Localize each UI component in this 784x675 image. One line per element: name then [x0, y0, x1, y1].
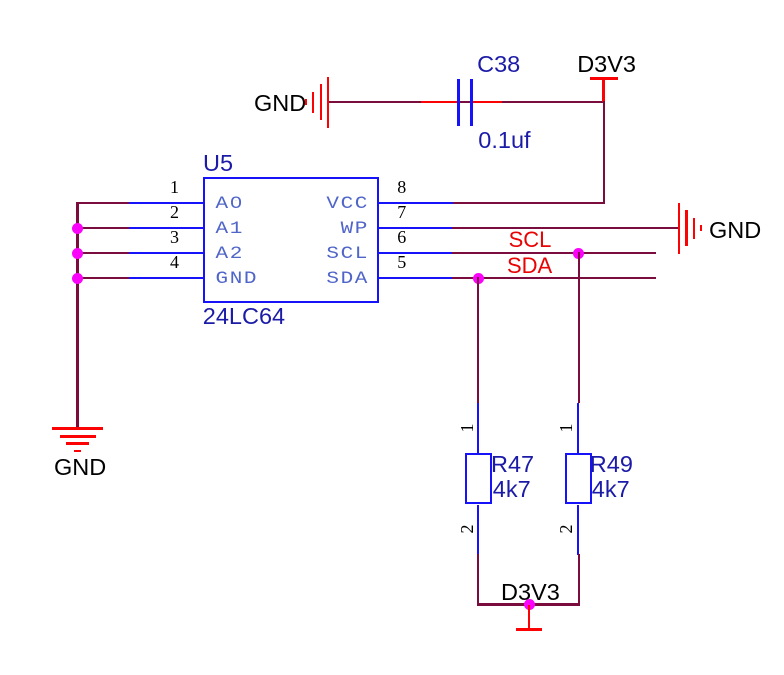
label GND top-left: [254, 91, 306, 117]
pin name A0: [216, 196, 244, 213]
wire net SDA horizontal: [452, 277, 656, 279]
ground symbol top-left (sideways): [0, 0, 784, 1]
net label SCL: [509, 228, 552, 252]
pin 4 GND: [129, 277, 203, 280]
label D3V3 bottom: [501, 580, 560, 606]
resistor R49 pin1 number 1: [557, 422, 571, 434]
pin number 7: [397, 203, 406, 221]
pin number 1: [150, 178, 179, 196]
capacitor C38 wire (GND to D3V3): [328, 101, 604, 103]
wire WP to GND: [452, 227, 678, 229]
pin number 5: [397, 253, 406, 271]
refdes R47: [491, 452, 534, 478]
pin number 8: [397, 178, 406, 196]
resistor R47 pin 2: [477, 505, 480, 555]
IC U5 body: [203, 177, 379, 303]
pin name A1: [216, 221, 244, 238]
resistor R47 pin1 number 1: [458, 422, 472, 434]
net label SDA: [507, 254, 552, 278]
label GND right: [709, 218, 761, 244]
pin name VCC: [284, 196, 369, 213]
wire net A0/A1/A2/GND vertical bus: [76, 202, 78, 429]
refdes R49: [590, 452, 633, 478]
resistor R47 body: [465, 453, 492, 505]
pin 5 SDA: [379, 277, 453, 280]
pin name A2: [216, 246, 244, 263]
value 0.1uf: [478, 128, 530, 154]
pin name SCL: [284, 246, 369, 263]
wire R49 bottom vertical: [578, 554, 580, 606]
resistor R47 pin2 number 2: [458, 523, 472, 535]
capacitor C38 left pin stub: [421, 101, 458, 104]
pin 8 VCC: [379, 202, 453, 205]
pin 7 WP: [379, 227, 453, 230]
pin 1 A0: [129, 202, 203, 205]
power symbol D3V3 bottom: [0, 0, 784, 1]
wire SCL to R49: [578, 252, 580, 403]
wire pin2 horizontal: [76, 227, 129, 229]
label C38: [477, 52, 520, 78]
power symbol D3V3 top: [0, 0, 784, 1]
capacitor C38 plates: [0, 0, 784, 1]
wire SDA to R47: [477, 277, 479, 403]
resistor R47 pin 1: [477, 403, 480, 454]
value 24LC64: [203, 304, 285, 330]
resistor R49 pin 2: [577, 505, 580, 555]
pin number 3: [150, 228, 179, 246]
capacitor C38 right pin stub: [473, 101, 502, 104]
pin name WP: [284, 221, 369, 238]
pin name GND: [216, 271, 259, 288]
wire pin3 horizontal: [76, 252, 129, 254]
pin name SDA: [284, 271, 369, 288]
pin 2 A1: [129, 227, 203, 230]
ground symbol bottom-left: [0, 0, 784, 1]
pin number 4: [150, 253, 179, 271]
ground symbol right (sideways): [0, 0, 784, 1]
wire VCC horizontal: [452, 202, 605, 204]
wire bottom rail horizontal: [477, 603, 580, 605]
pin 3 A2: [129, 252, 203, 255]
pin number 2: [150, 203, 179, 221]
value 4k7 (R47): [493, 477, 531, 503]
wire pin4 horizontal: [76, 277, 129, 279]
wire D3V3 vertical to VCC: [603, 101, 605, 204]
junction dot pin4: [72, 273, 83, 284]
pin 6 SCL: [379, 252, 453, 255]
junction dot pin3: [72, 248, 83, 259]
junction dot D3V3 bottom: [524, 599, 535, 610]
resistor R49 body: [565, 453, 592, 505]
refdes U5: [203, 151, 233, 177]
wire R47 bottom vertical: [477, 554, 479, 606]
junction dot pin2: [72, 223, 83, 234]
junction dot SCL: [573, 248, 584, 259]
wire pin1 horizontal: [76, 202, 129, 204]
label GND bottom-left: [54, 455, 106, 481]
resistor R49 pin 1: [577, 403, 580, 454]
value 4k7 (R49): [592, 477, 630, 503]
label D3V3 top: [577, 52, 636, 78]
pin number 6: [397, 228, 406, 246]
junction dot SDA: [473, 273, 484, 284]
wire net SCL horizontal: [452, 252, 656, 254]
resistor R49 pin2 number 2: [557, 523, 571, 535]
